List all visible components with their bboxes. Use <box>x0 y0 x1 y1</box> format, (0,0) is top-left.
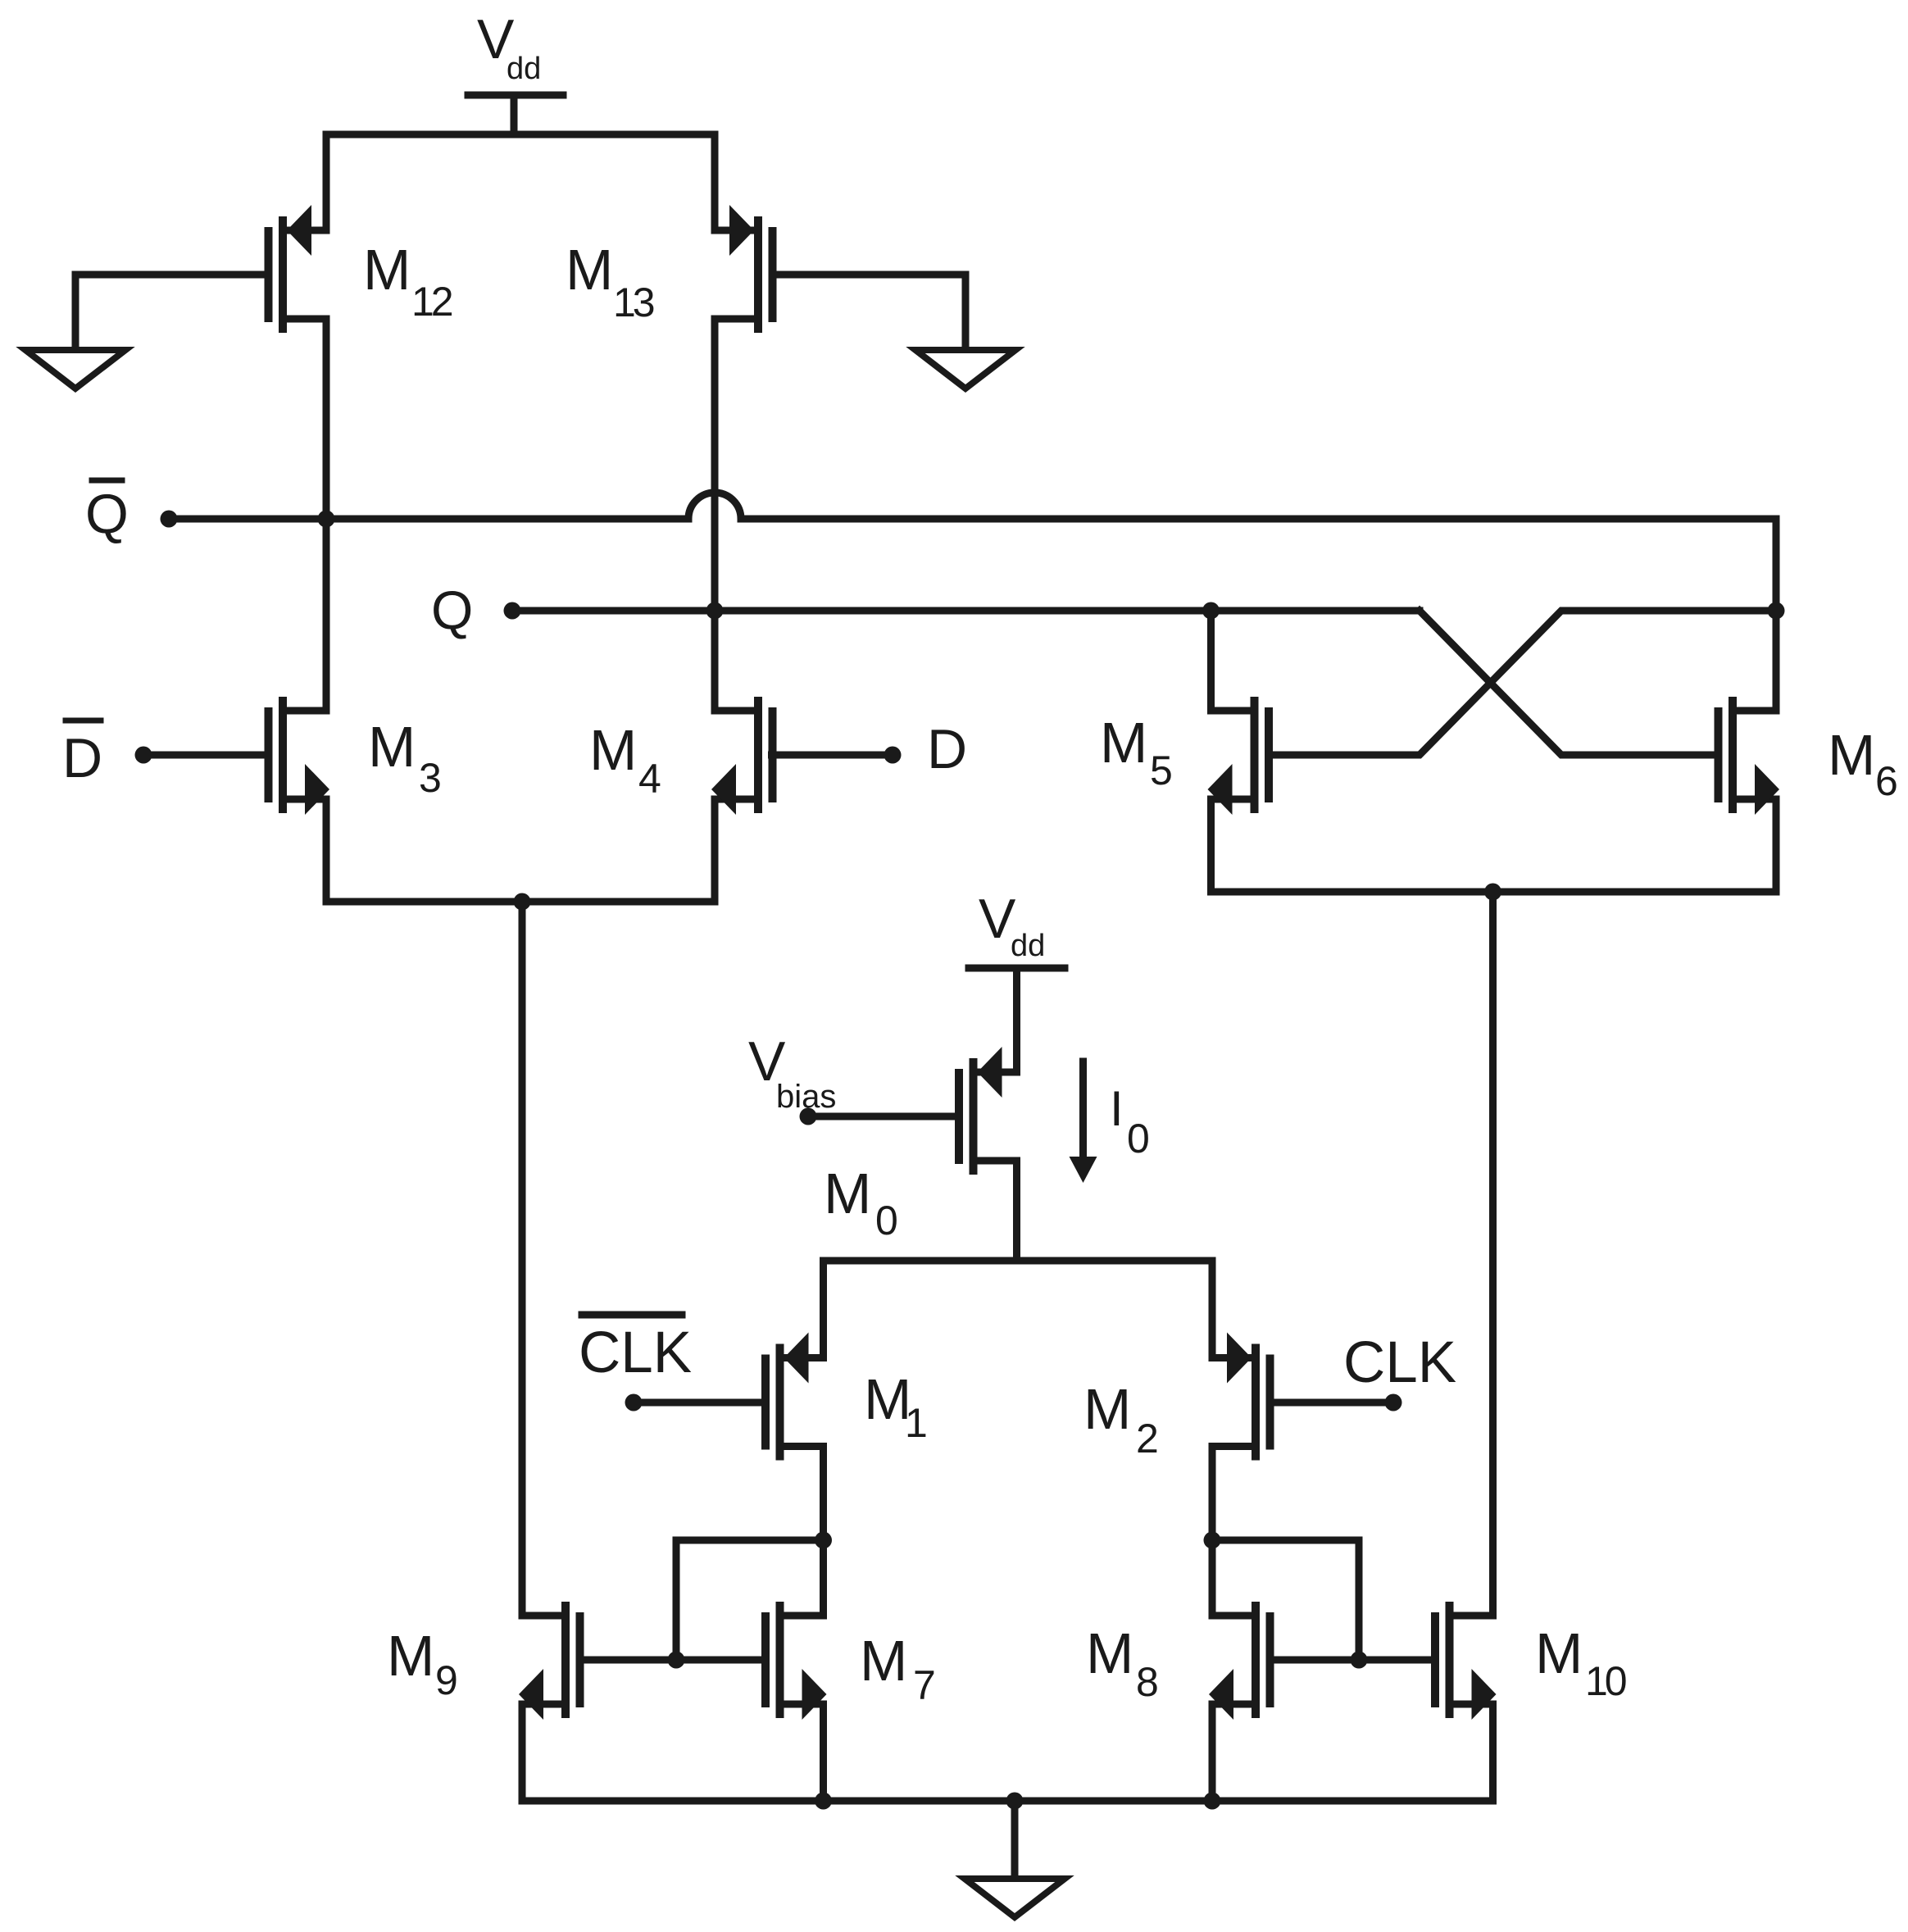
svg-text:dd: dd <box>1011 929 1045 963</box>
svg-text:M: M <box>1828 723 1875 787</box>
transistor M5 (NMOS) <box>1251 697 1259 813</box>
svg-text:9: 9 <box>435 1657 458 1703</box>
transistor M2 (PMOS) <box>1252 1344 1260 1461</box>
wire: M13 gate to ground <box>777 275 965 347</box>
wire: Q line from terminal to cross-couple <box>512 607 1420 615</box>
wire: M13 drain down to M4 drain (Q column) <box>711 319 719 711</box>
transistor M13 (PMOS) <box>754 216 762 333</box>
wire: bottom source rail <box>522 1704 1493 1801</box>
svg-text:I: I <box>1110 1081 1124 1136</box>
node ground junction <box>1006 1793 1024 1810</box>
svg-text:M: M <box>368 715 416 779</box>
wire: D input to M4 gate <box>772 752 893 759</box>
svg-text:M: M <box>1535 1621 1583 1685</box>
transistor M10 (NMOS) <box>1446 1602 1454 1718</box>
node M3/M4 source junction to M9 <box>514 893 531 911</box>
node CLKbar terminal <box>625 1394 643 1411</box>
transistor M1 (PMOS) <box>776 1344 784 1461</box>
wire: ground stem <box>1011 1801 1019 1875</box>
svg-text:3: 3 <box>419 755 442 801</box>
node M5/M6 source junction to M10 <box>1484 884 1501 901</box>
svg-text:12: 12 <box>411 279 452 325</box>
svg-text:10: 10 <box>1585 1658 1626 1704</box>
wire: M9 gate to M7 gate <box>580 1657 766 1664</box>
svg-text:M: M <box>1100 711 1147 775</box>
svg-text:M: M <box>1083 1377 1131 1441</box>
svg-text:8: 8 <box>1136 1659 1159 1705</box>
node Q junction at M13/M4 <box>706 602 724 620</box>
wire: cross-couple Q to M6 gate (diagonal) <box>1420 611 1719 755</box>
wire: M3/M4 sources down to M9 drain <box>519 902 526 1616</box>
svg-text:M: M <box>566 238 613 302</box>
wire: M1 drain to M7/M9 gate node <box>676 1540 824 1660</box>
wire: M2 drain down to M8 drain <box>1209 1447 1216 1616</box>
power symbol Vdd (middle) <box>969 965 1065 972</box>
wire: M12 drain down to M3 drain (Qbar column) <box>323 319 330 711</box>
wire: M7 source to bottom rail <box>820 1704 827 1801</box>
transistor M8 (NMOS) <box>1252 1602 1260 1718</box>
wire: tail rail M1-M2 <box>824 1261 1213 1358</box>
ground (M12 gate) <box>25 350 125 389</box>
power symbol Vdd (top) <box>468 92 563 99</box>
wire: M8 gate to M10 gate <box>1270 1657 1436 1664</box>
node Qbar junction at M6 column / cross-couple <box>1768 602 1785 620</box>
svg-text:0: 0 <box>1127 1116 1150 1161</box>
svg-text:M: M <box>363 238 411 302</box>
ground (M13 gate) <box>915 350 1015 389</box>
svg-text:M: M <box>1086 1621 1133 1685</box>
svg-text:7: 7 <box>913 1662 936 1708</box>
node Qbar terminal <box>161 511 178 528</box>
svg-text:4: 4 <box>638 756 661 802</box>
svg-text:6: 6 <box>1875 758 1898 804</box>
transistor M4 (NMOS) <box>754 697 762 813</box>
svg-text:5: 5 <box>1150 748 1173 793</box>
svg-text:2: 2 <box>1136 1416 1159 1462</box>
wire: Vbias to M0 gate <box>808 1113 955 1121</box>
svg-text:D: D <box>927 718 967 780</box>
svg-text:M: M <box>860 1629 907 1693</box>
node M2 drain junction <box>1204 1532 1221 1549</box>
svg-text:dd: dd <box>507 52 541 86</box>
node M1 drain junction <box>815 1532 832 1549</box>
wire: M2 drain to M8/M10 gate node <box>1212 1540 1359 1660</box>
wire: M8 source to bottom rail <box>1209 1704 1216 1801</box>
transistor M0 (PMOS) <box>970 1058 978 1175</box>
svg-text:0: 0 <box>875 1198 898 1243</box>
svg-text:CLK: CLK <box>1343 1330 1456 1395</box>
node Vbias terminal <box>800 1108 817 1125</box>
wire: M2 gate to CLK <box>1270 1399 1394 1407</box>
svg-text:13: 13 <box>613 280 654 325</box>
node Q junction at M5 drain <box>1202 602 1220 620</box>
node M8 source junction <box>1204 1793 1221 1810</box>
node D terminal <box>884 747 902 764</box>
node Dbar terminal <box>135 747 152 764</box>
wire: M3/M4 common-source rail <box>326 801 715 902</box>
svg-text:CLK: CLK <box>579 1321 692 1385</box>
wire: latch tail down to M10 drain <box>1489 892 1497 1616</box>
node Qbar junction at M12/M3 <box>318 511 335 528</box>
node M8/M10 gate junction <box>1351 1652 1368 1669</box>
svg-text:M: M <box>824 1161 871 1225</box>
wire: cross-couple Qbar to M5 gate (diagonal) <box>1269 611 1776 755</box>
svg-text:Q: Q <box>431 580 473 640</box>
transistor M7 (NMOS) <box>776 1602 784 1718</box>
svg-text:1: 1 <box>905 1400 928 1446</box>
transistor M3 (NMOS) <box>279 697 287 813</box>
current arrow I0 <box>1079 1061 1087 1158</box>
svg-text:bias: bias <box>776 1079 836 1115</box>
transistor M9 (NMOS) <box>561 1602 570 1718</box>
node Q terminal <box>504 602 521 620</box>
svg-text:Q: Q <box>85 483 129 545</box>
wire: M1 drain down to M7 drain <box>820 1447 827 1616</box>
transistor M12 (PMOS) <box>279 216 287 333</box>
node M7 source junction <box>815 1793 832 1810</box>
svg-text:M: M <box>589 718 637 782</box>
wire: Vdd top rail to M12/M13 sources <box>326 134 715 230</box>
node CLK terminal <box>1385 1394 1402 1411</box>
wire: CLKbar to M1 gate <box>634 1399 761 1407</box>
wire: M12 gate to ground <box>75 275 265 347</box>
svg-text:D: D <box>62 727 102 789</box>
ground (bottom) <box>965 1879 1065 1917</box>
wire: M0 drain to tail rail <box>1013 1161 1020 1261</box>
wire: M5/M6 common-source rail <box>1211 801 1777 892</box>
wire: Dbar input to M3 gate <box>143 752 265 759</box>
transistor M6 (NMOS) <box>1729 697 1737 813</box>
wire: Q node down to M5 drain <box>1207 611 1215 711</box>
svg-text:M: M <box>387 1624 434 1688</box>
wire: Qbar line with hop over M13 drain, to M6 drain column <box>169 493 1776 711</box>
node M7/M9 gate junction <box>668 1652 685 1669</box>
